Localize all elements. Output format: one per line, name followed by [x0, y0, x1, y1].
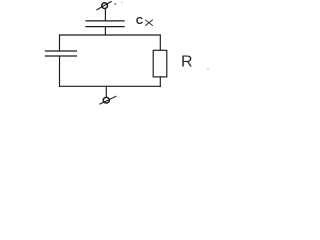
wire [105, 86, 107, 97]
wire [59, 35, 61, 51]
resistor R [153, 50, 167, 77]
svg-text:C: C [136, 16, 143, 27]
wire [59, 56, 61, 86]
capacitor Cx [86, 21, 124, 27]
wire [104, 27, 106, 35]
label Cx [136, 16, 153, 27]
wire [104, 9, 106, 21]
wire [159, 35, 161, 50]
terminal T1 (top) [97, 2, 111, 10]
terminal T2 (bottom) [100, 96, 116, 104]
svg-text:R: R [181, 54, 193, 71]
wire [60, 85, 161, 87]
wire [159, 77, 161, 86]
wire [60, 34, 161, 36]
capacitor (left) [46, 51, 77, 56]
